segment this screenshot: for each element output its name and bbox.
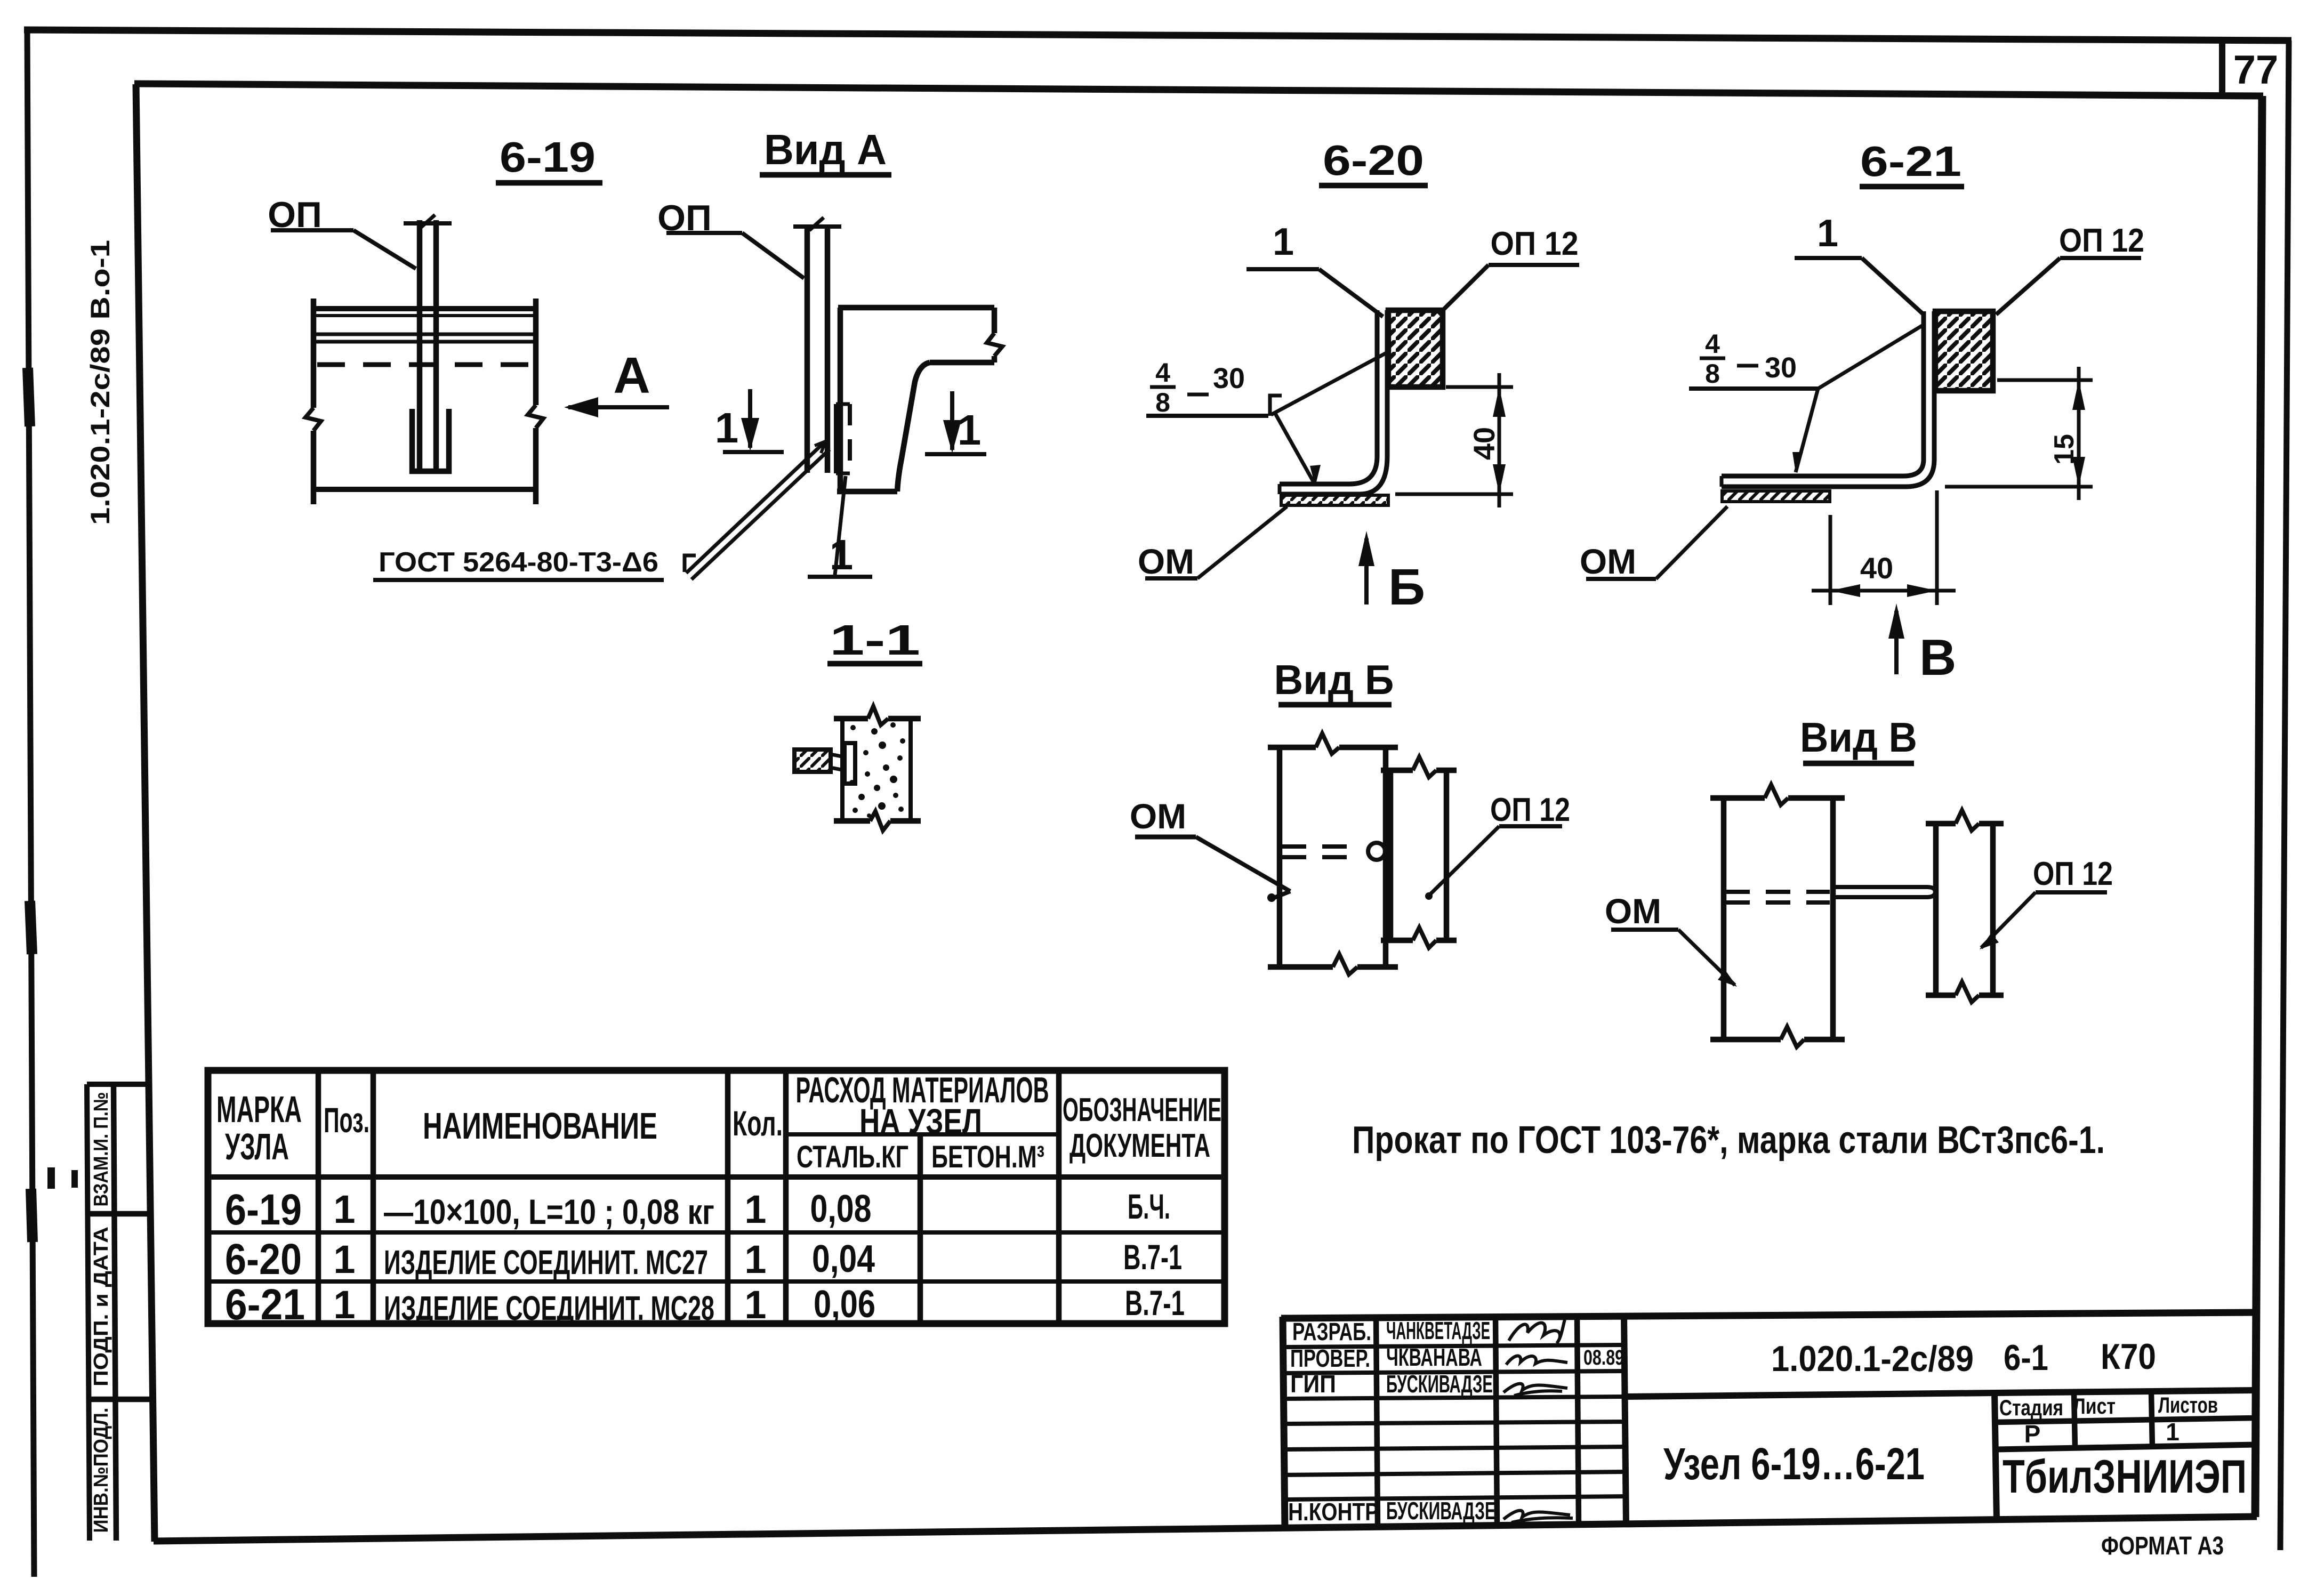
svg-text:РАЗРАБ.: РАЗРАБ. [1292,1318,1371,1345]
svg-text:—10×100, L=10 ; 0,08 кг: —10×100, L=10 ; 0,08 кг [384,1192,714,1231]
svg-text:Лист: Лист [2073,1393,2116,1418]
svg-text:В.7-1: В.7-1 [1125,1283,1185,1323]
svg-text:Вид Б: Вид Б [1274,656,1394,703]
svg-text:НА УЗЕЛ: НА УЗЕЛ [859,1101,982,1141]
svg-text:ТбилЗНИИЭП: ТбилЗНИИЭП [2003,1450,2247,1503]
svg-text:ОП 12: ОП 12 [2033,856,2113,892]
svg-text:30: 30 [1213,362,1245,394]
svg-text:6-20: 6-20 [225,1235,302,1284]
svg-text:БЕТОН.М³: БЕТОН.М³ [931,1140,1044,1174]
svg-text:ОМ: ОМ [1605,891,1661,931]
svg-text:0,04: 0,04 [812,1238,875,1280]
svg-text:ОМ: ОМ [1130,796,1186,836]
svg-text:15: 15 [2049,434,2080,465]
svg-text:1: 1 [744,1237,766,1281]
svg-text:Стадия: Стадия [1999,1395,2063,1420]
svg-text:ВЗАМ.И. П.№: ВЗАМ.И. П.№ [90,1092,112,1207]
svg-text:Р: Р [2024,1420,2041,1448]
svg-text:БУСКИВАДЗЕ: БУСКИВАДЗЕ [1386,1370,1493,1398]
svg-text:ЧАНКВЕТАДЗЕ: ЧАНКВЕТАДЗЕ [1386,1317,1490,1344]
svg-text:ИЗДЕЛИЕ СОЕДИНИТ. МС28: ИЗДЕЛИЕ СОЕДИНИТ. МС28 [384,1289,714,1327]
svg-text:Б: Б [1388,559,1425,616]
svg-text:ОБОЗНАЧЕНИЕ: ОБОЗНАЧЕНИЕ [1063,1092,1221,1129]
svg-text:6-21: 6-21 [1860,138,1961,185]
svg-text:ПРОВЕР.: ПРОВЕР. [1290,1344,1370,1372]
svg-text:НАИМЕНОВАНИЕ: НАИМЕНОВАНИЕ [423,1105,657,1147]
svg-text:1: 1 [333,1187,355,1231]
svg-text:МАРКА: МАРКА [216,1089,302,1130]
svg-text:Листов: Листов [2158,1392,2218,1417]
svg-text:ОМ: ОМ [1138,542,1194,581]
svg-text:8: 8 [1155,388,1170,417]
svg-text:08.89: 08.89 [1583,1346,1624,1369]
svg-text:0,08: 0,08 [810,1188,872,1230]
svg-text:40: 40 [1467,427,1501,460]
svg-text:77: 77 [2233,47,2279,93]
svg-text:БУСКИВАДЗЕ: БУСКИВАДЗЕ [1386,1497,1495,1525]
svg-text:30: 30 [1765,352,1797,384]
svg-text:Узел 6-19…6-21: Узел 6-19…6-21 [1663,1439,1925,1489]
svg-text:ИНВ.№ПОДЛ.: ИНВ.№ПОДЛ. [90,1408,112,1533]
svg-text:Вид А: Вид А [764,126,887,173]
svg-text:Б.Ч.: Б.Ч. [1128,1187,1170,1226]
svg-text:6-21: 6-21 [225,1280,305,1329]
svg-text:В.7-1: В.7-1 [1123,1237,1182,1277]
svg-text:1: 1 [333,1237,355,1281]
svg-text:Прокат по ГОСТ 103-76*, марка: Прокат по ГОСТ 103-76*, марка стали ВСт3… [1352,1119,2105,1162]
svg-text:0,06: 0,06 [814,1283,875,1326]
svg-text:6-19: 6-19 [500,133,596,181]
svg-text:4: 4 [1705,329,1720,359]
svg-text:1.020.1-2с/89 В.о-1: 1.020.1-2с/89 В.о-1 [85,240,115,525]
svg-text:Кол.: Кол. [733,1103,783,1143]
svg-text:1: 1 [744,1283,766,1327]
svg-text:1: 1 [1817,212,1838,255]
svg-text:1.020.1-2с/89: 1.020.1-2с/89 [1771,1339,1974,1379]
svg-text:1: 1 [744,1187,766,1231]
svg-text:ИЗДЕЛИЕ СОЕДИНИТ. МС27: ИЗДЕЛИЕ СОЕДИНИТ. МС27 [384,1243,708,1281]
svg-text:ДОКУМЕНТА: ДОКУМЕНТА [1069,1127,1210,1164]
svg-text:ОП 12: ОП 12 [1490,792,1570,828]
svg-text:4: 4 [1155,358,1170,388]
svg-text:ФОРМАТ А3: ФОРМАТ А3 [2101,1532,2224,1560]
svg-text:ОМ: ОМ [1580,542,1636,581]
svg-text:6-1: 6-1 [2004,1337,2048,1378]
svg-text:1: 1 [830,531,854,578]
svg-text:ГИП: ГИП [1290,1370,1336,1398]
svg-text:ОП 12: ОП 12 [1491,225,1579,262]
svg-text:8: 8 [1705,359,1720,389]
svg-text:Н.КОНТР: Н.КОНТР [1288,1498,1379,1526]
svg-text:1: 1 [1273,221,1294,263]
svg-text:Поз.: Поз. [324,1100,369,1140]
svg-text:СТАЛЬ.КГ: СТАЛЬ.КГ [797,1140,908,1174]
svg-text:40: 40 [1860,551,1893,585]
svg-text:ГОСТ 5264-80-Т3-Δ6: ГОСТ 5264-80-Т3-Δ6 [379,547,658,578]
svg-text:УЗЛА: УЗЛА [225,1126,289,1167]
svg-text:А: А [613,347,650,404]
svg-text:1: 1 [2166,1418,2180,1446]
svg-text:В: В [1919,629,1956,686]
svg-text:6-20: 6-20 [1323,136,1424,184]
svg-text:ЧКВАНАВА: ЧКВАНАВА [1386,1343,1482,1371]
svg-text:1: 1 [958,406,982,454]
svg-text:ОП 12: ОП 12 [2059,222,2144,259]
svg-text:1: 1 [333,1283,355,1327]
svg-text:1: 1 [715,404,739,452]
svg-text:1-1: 1-1 [830,616,920,664]
svg-text:Вид В: Вид В [1800,714,1917,761]
svg-text:6-19: 6-19 [225,1186,302,1234]
svg-text:ПОДП. и ДАТА: ПОДП. и ДАТА [90,1227,112,1387]
svg-text:К70: К70 [2101,1336,2156,1377]
